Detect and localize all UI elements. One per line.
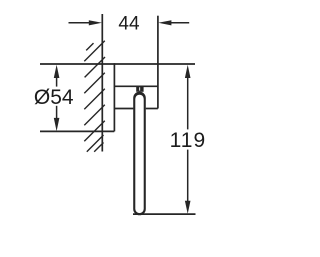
- rosette front edge: [113, 63, 115, 131]
- dimension diameter 54: [54, 65, 60, 131]
- svg-text:Ø: Ø: [34, 86, 50, 109]
- dimension 44: [69, 20, 190, 25]
- top extension line (top of fixture / datum): [40, 63, 195, 65]
- svg-text:44: 44: [118, 14, 140, 35]
- svg-text:54: 54: [50, 86, 74, 109]
- ring pivot clevis: [136, 86, 143, 91]
- rosette bottom + lower extension line for diameter: [40, 130, 114, 132]
- holder body bottom right segment: [146, 108, 158, 110]
- holder body bottom left segment: [114, 108, 133, 110]
- holder body mid line: [114, 85, 157, 87]
- dimension 119: [185, 65, 191, 214]
- svg-text:119: 119: [170, 129, 206, 152]
- wall hatching: [84, 41, 105, 152]
- wall face line: [101, 14, 103, 152]
- holder body right edge + 44 extension line: [157, 16, 159, 109]
- ring (edge-on): [133, 92, 146, 216]
- bottom extension line (lowest point of ring): [133, 213, 196, 215]
